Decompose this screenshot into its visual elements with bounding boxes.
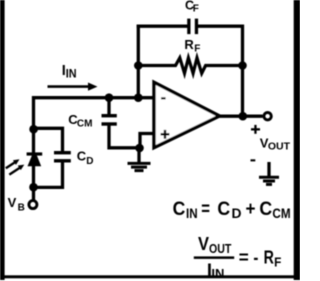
ground 1 — [128, 163, 151, 170]
resistor RF — [138, 58, 242, 74]
capacitor CD plates — [54, 151, 71, 154]
wire: ground 2 stem — [267, 162, 270, 176]
wire: photodiode stem (top dot to VB terminal) — [32, 128, 35, 200]
label - (VOUT) — [251, 159, 256, 161]
svg-text:+: + — [246, 198, 256, 220]
capacitor CCM plates — [102, 114, 117, 117]
svg-text:C: C — [173, 198, 186, 220]
fraction bar — [194, 256, 234, 259]
svg-text:F: F — [274, 255, 281, 270]
wire: CF top right segment — [198, 25, 244, 117]
wire: main input node (photodiode top to op-amp inverting input) — [34, 98, 155, 130]
op-amp U1 — [154, 82, 220, 147]
IIN arrow — [48, 83, 98, 91]
border bottom bar — [0, 275, 300, 278]
svg-text:CM: CM — [272, 206, 290, 221]
svg-text:V: V — [198, 233, 210, 254]
svg-text:=: = — [201, 198, 210, 220]
svg-text:D: D — [232, 206, 242, 221]
node dot photodiode bottom — [29, 183, 38, 192]
light arrow upper — [6, 159, 20, 168]
node dot output — [239, 112, 248, 121]
svg-text:=: = — [239, 247, 249, 268]
equation VOUT/IIN = -RF fraction — [194, 233, 282, 281]
label + (VOUT) — [251, 125, 260, 134]
node dot feedback tap on input wire — [134, 93, 143, 102]
border left bar — [0, 0, 5, 280]
svg-text:R: R — [264, 247, 274, 268]
node dot ground tap — [135, 144, 144, 153]
terminal VOUT circle — [264, 113, 271, 120]
svg-text:C: C — [259, 198, 272, 220]
capacitor CF plates — [187, 19, 190, 34]
node dot RF left — [134, 61, 143, 70]
photodiode D1 cathode bar — [27, 152, 43, 155]
op-amp minus sign — [161, 97, 166, 99]
node dot RF right — [238, 61, 247, 70]
svg-text:-: - — [253, 247, 258, 268]
wire: op-amp + input — [140, 134, 154, 149]
wire: ground 1 stem — [137, 148, 140, 163]
wire: CF top left segment — [137, 25, 188, 28]
wire: output — [219, 115, 263, 118]
ground 2 — [259, 177, 279, 184]
light arrow lower — [9, 165, 24, 175]
svg-text:IN: IN — [186, 206, 198, 221]
op-amp plus sign — [161, 130, 170, 139]
svg-text:IN: IN — [211, 266, 224, 281]
svg-text:C: C — [217, 198, 230, 220]
photodiode D1 triangle — [28, 156, 42, 167]
wire: feedback loop left vertical — [137, 25, 140, 98]
node dot photodiode top — [29, 125, 38, 134]
svg-text:OUT: OUT — [209, 241, 231, 256]
border right bar — [294, 0, 300, 280]
wire: CD branch — [34, 128, 63, 187]
equation CIN = CD + CCM — [173, 198, 291, 221]
terminal VB circle — [29, 201, 37, 209]
wire: CCM branch — [109, 98, 140, 148]
node dot CCM tap — [105, 93, 114, 102]
